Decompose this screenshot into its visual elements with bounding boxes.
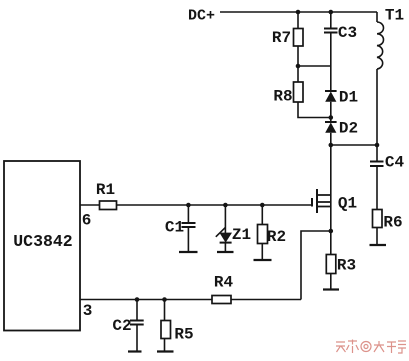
node junction dot T1/C4 [375, 143, 380, 148]
ground bar below Z1 [217, 251, 234, 253]
wire C1 bottom lead [187, 227, 189, 252]
transistor Q1 [312, 189, 331, 231]
wire R7 top lead [297, 12, 299, 29]
svg-text:T1: T1 [385, 7, 404, 25]
wire R6 to terminal [376, 228, 378, 246]
node junction dot C1 tap [186, 203, 191, 208]
svg-text:R4: R4 [214, 274, 234, 292]
svg-text:R7: R7 [272, 29, 291, 47]
ground bar below C1 [179, 251, 198, 253]
svg-text:C1: C1 [165, 219, 184, 237]
diode D2 [325, 122, 337, 133]
svg-text:R5: R5 [174, 326, 193, 344]
wire Z1 top lead [224, 205, 226, 233]
wire C3 top lead [330, 12, 332, 29]
terminal bar below R6 [370, 244, 387, 246]
svg-text:6: 6 [82, 212, 92, 230]
wire C3 bottom to D1 [330, 33, 332, 92]
wire R7-R8 node to C3 bottom [298, 65, 331, 67]
zener diode Z1 [216, 227, 232, 242]
svg-text:C4: C4 [385, 154, 405, 172]
svg-text:3: 3 [83, 302, 93, 320]
wire R5 bottom lead [164, 339, 166, 352]
node junction dot top rail R7 [296, 10, 301, 15]
diode D1 [325, 91, 337, 102]
watermark 头条@大年君 [336, 340, 406, 354]
svg-text:R6: R6 [383, 214, 402, 232]
wire D2 node to T1/C4 node [331, 144, 377, 146]
wire source to R3 [330, 231, 332, 255]
wire T1 bottom to C4 [376, 69, 378, 161]
wire pin 3 rail [80, 299, 301, 301]
svg-text:Z1: Z1 [232, 226, 251, 244]
resistor R8 [294, 82, 304, 102]
svg-text:D2: D2 [339, 120, 358, 138]
wire Z1 bottom lead [224, 243, 226, 252]
svg-text:C3: C3 [338, 24, 357, 42]
node junction dot D2 bottom [329, 143, 334, 148]
wire C2 bottom lead [136, 325, 138, 352]
ground bar below C2 [128, 350, 142, 352]
resistor R3 [326, 255, 336, 274]
wire D2 bottom to node [330, 133, 332, 145]
ground bar below R5 [157, 350, 174, 352]
ground bar below R2 [254, 259, 272, 261]
wire C2 top lead [136, 300, 138, 321]
wire C4 to R6 [376, 166, 378, 210]
node junction dot R2 tap [260, 203, 265, 208]
resistor R1 [100, 201, 117, 210]
resistor R7 [294, 29, 304, 47]
wire R2 top lead [261, 205, 263, 225]
op-amp U1 UC3842 box [4, 161, 80, 331]
wire T1 top lead [376, 12, 378, 22]
wire R2 bottom lead [261, 244, 263, 260]
wire C1 top lead [187, 205, 189, 223]
wire drain line down to Q1 [330, 145, 332, 195]
svg-text:UC3842: UC3842 [13, 232, 72, 251]
svg-text:C2: C2 [112, 317, 131, 335]
svg-text:DC+: DC+ [188, 8, 215, 25]
node junction dot R7/R8/C3 [296, 64, 301, 69]
wire D1 to D2 [330, 102, 332, 122]
capacitor C4 [370, 162, 384, 167]
svg-text:R1: R1 [96, 181, 115, 199]
wire R8 bottom to D1-D2 node [298, 102, 331, 118]
resistor R4 [212, 296, 231, 304]
resistor R6 [373, 210, 383, 228]
svg-text:D1: D1 [339, 89, 358, 107]
transformer T1 winding [377, 22, 384, 69]
resistor R2 [258, 225, 268, 244]
wire source to left then down to pin3 rail [301, 231, 331, 300]
wire R5 top lead [164, 300, 166, 321]
node junction dot Z1 tap [223, 203, 228, 208]
svg-text:R2: R2 [267, 228, 286, 246]
wire top rail DC+ to T1 [220, 11, 377, 13]
node junction dot D1/D2/R8 [329, 115, 334, 120]
capacitor C3 [324, 29, 338, 33]
node junction dot Q1 source [329, 229, 334, 234]
ground bar below R3 [323, 288, 339, 290]
capacitor C1 [182, 223, 196, 227]
svg-text:Q1: Q1 [338, 195, 357, 213]
svg-text:R8: R8 [273, 88, 292, 106]
wire R7 bottom to R8 top [297, 46, 299, 82]
capacitor C2 [130, 321, 144, 325]
node junction dot C2 tap [135, 297, 140, 302]
resistor R5 [161, 321, 171, 339]
wire pin 6 rail [80, 204, 312, 206]
wire R3 to ground [330, 274, 332, 290]
node junction dot top rail C3 [329, 10, 334, 15]
svg-text:R3: R3 [337, 257, 356, 275]
node junction dot R5 tap [162, 297, 167, 302]
